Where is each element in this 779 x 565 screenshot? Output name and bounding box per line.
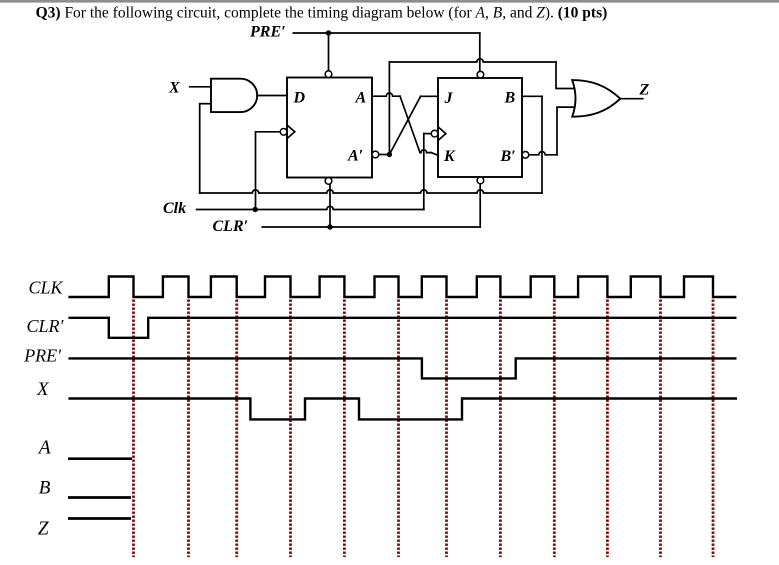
svg-text:X: X: [36, 379, 50, 400]
svg-text:D: D: [293, 89, 306, 106]
svg-text:B: B: [39, 477, 51, 498]
svg-text:Q3) For the following circuit: Q3) For the following circuit, complete …: [36, 5, 608, 22]
svg-text:A: A: [355, 89, 367, 106]
svg-text:CLK: CLK: [29, 278, 64, 298]
svg-text:K: K: [443, 148, 456, 165]
svg-text:CLR′: CLR′: [27, 316, 65, 336]
svg-text:CLR′: CLR′: [213, 218, 249, 235]
svg-text:J: J: [444, 90, 454, 107]
svg-text:A: A: [37, 437, 51, 458]
svg-text:X: X: [168, 80, 180, 97]
svg-text:PRE′: PRE′: [23, 346, 62, 366]
svg-text:Z: Z: [639, 82, 650, 99]
svg-text:A′: A′: [347, 148, 363, 165]
svg-text:PRE′: PRE′: [249, 24, 286, 41]
svg-text:Z: Z: [38, 519, 49, 540]
svg-text:B′: B′: [500, 148, 516, 165]
svg-text:B: B: [504, 89, 516, 106]
svg-text:Clk: Clk: [163, 200, 186, 217]
